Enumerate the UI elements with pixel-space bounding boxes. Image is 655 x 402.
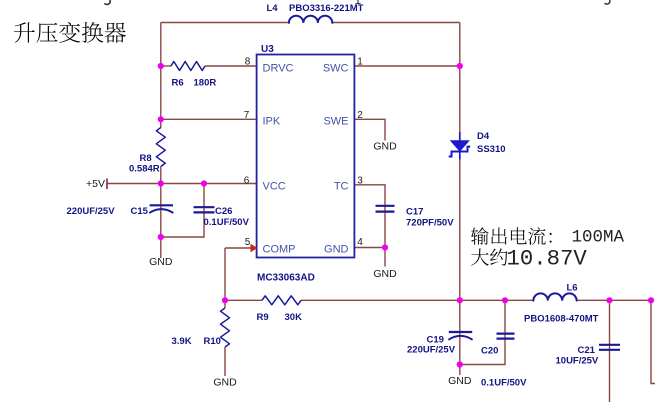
svg-text:VCC: VCC	[263, 181, 286, 193]
resistor R6	[171, 62, 205, 71]
svg-text:180R: 180R	[194, 78, 217, 89]
svg-text:3.9K: 3.9K	[172, 336, 192, 347]
power port +5V	[86, 178, 107, 190]
wire	[301, 299, 533, 301]
resistor R9	[262, 296, 301, 305]
svg-text:R9: R9	[257, 312, 269, 323]
capacitor C19 (polarized)	[448, 332, 472, 340]
svg-text:PBO3316-221MT: PBO3316-221MT	[289, 3, 364, 14]
svg-text:C21: C21	[578, 345, 596, 356]
svg-text:MC33063AD: MC33063AD	[257, 273, 315, 284]
junction	[222, 297, 228, 303]
wire	[107, 183, 257, 185]
svg-text:SWE: SWE	[323, 116, 348, 128]
svg-text:4: 4	[357, 237, 363, 248]
wire	[354, 185, 385, 248]
capacitor C21	[599, 345, 620, 350]
ground	[149, 237, 173, 268]
svg-text:0.1UF/50V: 0.1UF/50V	[204, 217, 250, 228]
wire	[224, 248, 226, 300]
wire	[225, 247, 253, 249]
wire	[651, 300, 655, 383]
svg-text:DRVC: DRVC	[263, 63, 294, 75]
wire	[161, 65, 171, 67]
svg-text:GND: GND	[149, 256, 173, 268]
wire	[609, 300, 611, 402]
svg-text:220UF/25V: 220UF/25V	[67, 206, 116, 217]
svg-text:C17: C17	[406, 207, 423, 218]
svg-text:GND: GND	[373, 268, 397, 280]
note text 输出电流：	[471, 227, 552, 245]
svg-text:C15: C15	[131, 206, 149, 217]
wire	[460, 300, 505, 364]
ground	[213, 376, 237, 389]
svg-text:8: 8	[245, 57, 251, 68]
wire	[354, 247, 385, 249]
wire	[459, 23, 461, 134]
svg-text:COMP: COMP	[263, 244, 296, 256]
svg-text:0.584R: 0.584R	[129, 164, 160, 175]
wire	[459, 159, 461, 300]
wire	[205, 65, 257, 67]
svg-text:R8: R8	[140, 153, 152, 164]
capacitor C20	[497, 334, 515, 339]
inductor L4	[289, 16, 332, 23]
junction	[457, 361, 463, 367]
wire	[161, 184, 204, 238]
wire	[354, 65, 459, 67]
wire	[161, 22, 289, 24]
ground	[373, 267, 397, 281]
svg-text:GND: GND	[324, 244, 349, 256]
wire	[384, 248, 386, 267]
junction	[158, 234, 164, 240]
junction	[457, 297, 463, 303]
capacitor C26	[194, 207, 215, 212]
resistor R8	[156, 128, 165, 167]
wire	[161, 118, 257, 120]
capacitor C15 (polarized)	[149, 205, 173, 213]
junction	[158, 63, 164, 69]
svg-text:220UF/25V: 220UF/25V	[407, 345, 456, 356]
svg-text:TC: TC	[334, 181, 349, 193]
wire	[224, 300, 226, 308]
svg-text:10.87V: 10.87V	[507, 245, 588, 271]
svg-text:R10: R10	[204, 336, 221, 347]
svg-text:L6: L6	[567, 283, 578, 294]
junction	[382, 244, 388, 250]
svg-text:R6: R6	[172, 78, 184, 89]
diode D4 (Schottky)	[449, 132, 471, 160]
cropped text fragment top-left	[104, 0, 110, 4]
svg-text:1: 1	[357, 57, 363, 68]
svg-text:+5V: +5V	[86, 178, 105, 190]
junction	[158, 180, 164, 186]
junction	[648, 297, 654, 303]
wire	[354, 119, 385, 140]
ground	[448, 365, 472, 388]
svg-text:7: 7	[244, 110, 250, 121]
svg-text:2: 2	[357, 110, 363, 121]
wire	[459, 300, 461, 364]
wire	[224, 347, 226, 376]
wire	[160, 23, 162, 128]
svg-text:GND: GND	[448, 375, 472, 387]
wire	[577, 299, 651, 301]
capacitor C17	[376, 206, 395, 212]
svg-text:GND: GND	[213, 377, 237, 389]
svg-text:IPK: IPK	[263, 116, 281, 128]
COMP input arrow	[251, 244, 258, 252]
svg-text:GND: GND	[373, 141, 397, 153]
IC U3 MC33063AD	[257, 55, 355, 258]
cropped text fragment top-right	[605, 0, 610, 4]
wire	[225, 299, 262, 301]
resistor R10	[221, 308, 230, 347]
svg-text:30K: 30K	[285, 312, 303, 323]
title text 升压变换器	[14, 22, 126, 43]
junction	[201, 180, 207, 186]
svg-text:3: 3	[357, 175, 363, 186]
svg-text:SWC: SWC	[323, 63, 349, 75]
svg-text:10UF/25V: 10UF/25V	[556, 356, 599, 367]
svg-text:D4: D4	[477, 131, 490, 142]
svg-text:PBO1608-470MT: PBO1608-470MT	[524, 314, 599, 325]
svg-text:6: 6	[244, 175, 250, 186]
wire	[160, 167, 162, 238]
svg-text:C26: C26	[215, 206, 232, 217]
svg-text:SS310: SS310	[477, 144, 506, 155]
junction	[606, 297, 612, 303]
svg-text:5: 5	[245, 237, 251, 248]
wire	[332, 22, 460, 24]
svg-text:0.1UF/50V: 0.1UF/50V	[481, 378, 527, 389]
junction	[502, 297, 508, 303]
ground	[373, 141, 397, 153]
svg-text:U3: U3	[261, 44, 274, 55]
note text 大约	[471, 248, 507, 265]
svg-text:720PF/50V: 720PF/50V	[406, 218, 454, 229]
inductor L6	[533, 293, 576, 300]
junction	[457, 63, 463, 69]
svg-text:L4: L4	[267, 3, 279, 14]
cropped text fragment above L4 label	[356, 0, 361, 4]
svg-text:C20: C20	[481, 346, 498, 357]
junction	[158, 116, 164, 122]
